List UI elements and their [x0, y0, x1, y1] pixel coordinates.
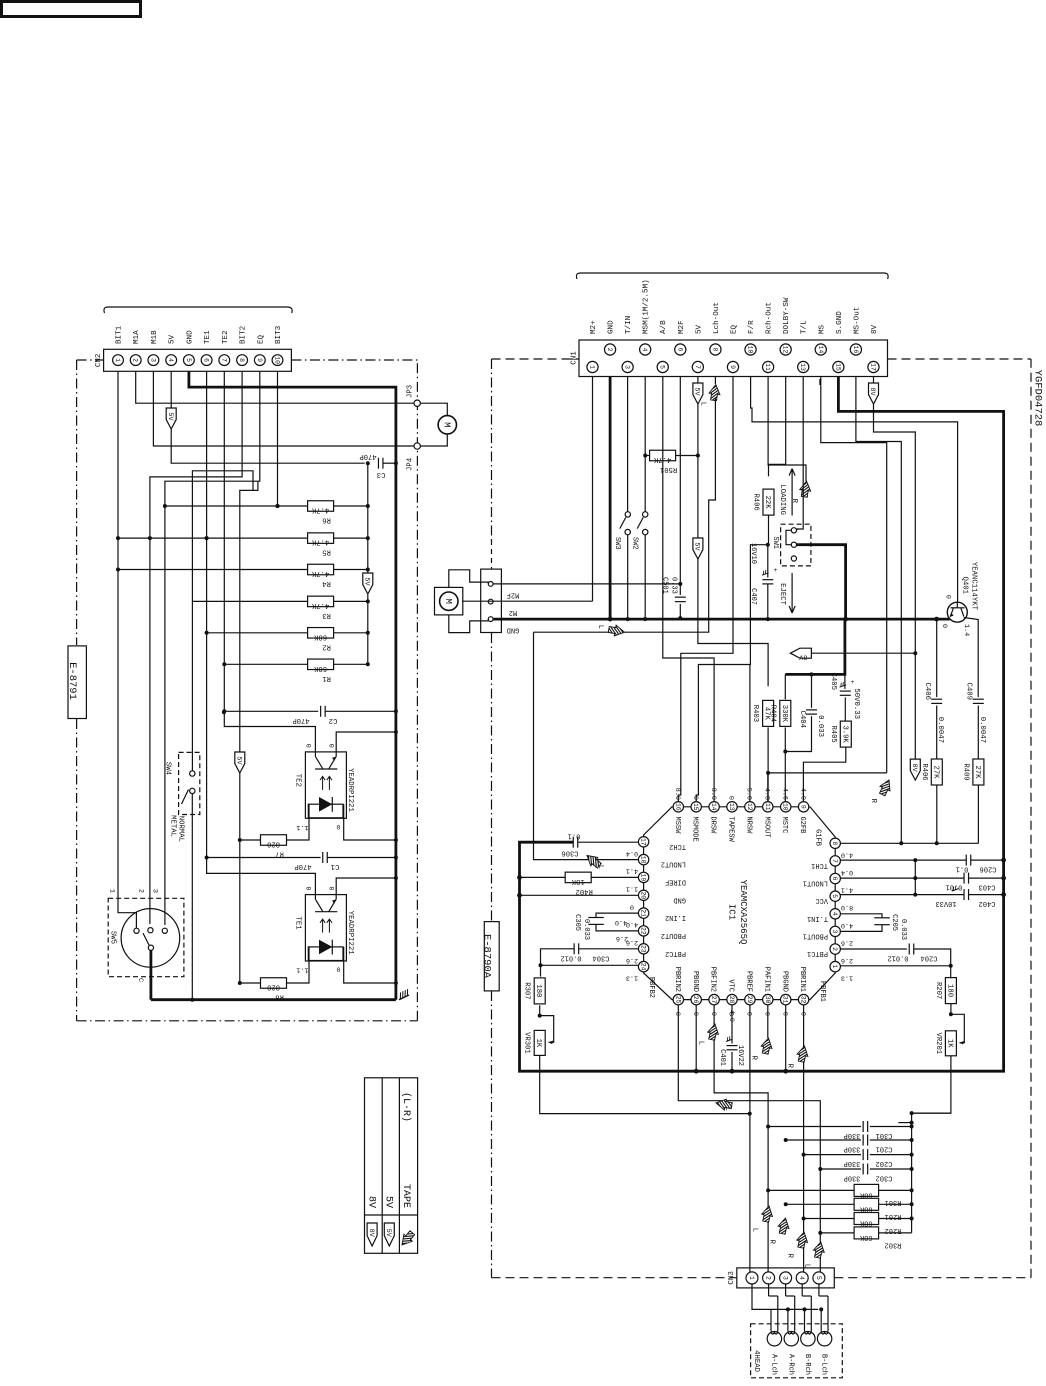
svg-text:5V: 5V	[693, 542, 701, 551]
capacitor C304 0.012 on pin23	[579, 948, 639, 950]
head A-Lch signal wire	[777, 1296, 779, 1332]
svg-text:2.6: 2.6	[841, 956, 853, 964]
svg-text:8.0: 8.0	[841, 903, 853, 911]
capacitor C402 10V33 (electrolytic) on pin5 VCC	[840, 894, 964, 896]
svg-text:MS: MS	[818, 324, 826, 334]
svg-text:TAPESW: TAPESW	[727, 817, 735, 843]
svg-text:R406: R406	[920, 763, 928, 780]
svg-text:20: 20	[640, 891, 647, 899]
svg-text:68K: 68K	[859, 1233, 872, 1241]
svg-text:CN1: CN1	[571, 351, 579, 365]
svg-text:L: L	[697, 1041, 705, 1045]
svg-text:4.0: 4.0	[841, 921, 853, 929]
svg-text:GND: GND	[186, 330, 194, 344]
wire pin1 PBFB1	[840, 965, 950, 967]
svg-text:R6: R6	[322, 515, 331, 523]
svg-text:YEADRPI221: YEADRPI221	[346, 768, 354, 812]
svg-text:PBTC1: PBTC1	[807, 949, 828, 957]
svg-text:NRSW: NRSW	[744, 817, 752, 835]
svg-text:PBRIN1: PBRIN1	[798, 967, 806, 992]
IC1 pin 8 G1FB	[830, 838, 840, 848]
head B-Rch signal wire	[810, 1296, 812, 1332]
svg-text:8: 8	[831, 841, 838, 845]
IC1 pin 31 PBGND	[781, 994, 791, 1004]
wire pin27 PBFIN2 to CN3-2	[714, 1005, 768, 1272]
svg-text:0.33: 0.33	[670, 577, 678, 594]
svg-text:R406: R406	[752, 493, 760, 510]
svg-text:0.4: 0.4	[841, 868, 853, 876]
svg-text:0: 0	[691, 796, 699, 800]
TE2 bottom wires / resistor R7 820	[286, 804, 309, 840]
svg-text:0: 0	[691, 1012, 699, 1016]
svg-text:SW4: SW4	[163, 762, 171, 776]
svg-text:TE2: TE2	[222, 330, 230, 344]
resistor R405 3.9K	[844, 697, 846, 721]
svg-text:T/IN: T/IN	[625, 316, 633, 334]
capacitor C407 16V10 (electrolytic)	[767, 545, 769, 578]
wire pin31 PBGND to shield	[785, 1005, 787, 1071]
svg-text:Q401: Q401	[960, 576, 968, 594]
svg-text:24: 24	[640, 963, 647, 971]
resistor R406 27K	[931, 759, 942, 785]
capacitor C403 0.01 on pin6	[840, 877, 964, 879]
CN2 pin 5 GND	[184, 355, 195, 366]
IC1 pin 7 TCH1	[830, 856, 840, 866]
svg-text:0: 0	[303, 744, 311, 748]
svg-text:7: 7	[831, 859, 838, 863]
IC1 pin 25 PBRIN2	[673, 994, 683, 1004]
svg-text:C201: C201	[876, 1145, 893, 1153]
svg-text:TCH1: TCH1	[811, 861, 828, 869]
svg-text:8: 8	[238, 358, 245, 362]
IC1 pin 22 PBOUT2	[638, 926, 648, 936]
svg-text:DRSW: DRSW	[709, 817, 717, 835]
capacitor C305 0.033 between pin21/pin22	[596, 913, 638, 917]
svg-text:R405: R405	[829, 725, 837, 742]
svg-text:2: 2	[765, 1276, 772, 1280]
svg-text:L: L	[751, 1228, 759, 1232]
svg-text:5V: 5V	[235, 756, 243, 765]
CN1 pin 16 MS-Out	[850, 344, 861, 355]
IC1 pin 21 I.IN2	[638, 908, 648, 918]
wire SW4 branch	[192, 471, 253, 602]
wire CN1-10 F/R to Q401 base	[751, 377, 958, 602]
wire CN2-7 TE2 line	[224, 372, 315, 752]
capacitor C405 50V0.33 (electrolytic)	[844, 674, 846, 689]
VR201 wire down to PBREF line	[912, 1056, 951, 1113]
svg-text:T/L: T/L	[801, 320, 809, 334]
svg-text:C: C	[136, 978, 144, 982]
svg-text:PBFB2: PBFB2	[647, 977, 655, 998]
wire pin28 VTC / capacitor C401 16V22	[731, 1005, 733, 1044]
wire IC pin12 NRSW	[749, 665, 751, 802]
svg-text:4.7K: 4.7K	[311, 538, 329, 546]
legend tape arrow	[388, 1221, 423, 1254]
svg-text:E-8791: E-8791	[66, 662, 78, 700]
IC1 pin 9 G2FB	[798, 802, 808, 812]
resistor R202 68K	[804, 1218, 855, 1220]
CN1 pin 10 F/R	[745, 344, 756, 355]
svg-text:5V: 5V	[169, 334, 177, 344]
R tape flag on MS-Out junction	[870, 774, 906, 802]
svg-text:PAFIN1: PAFIN1	[762, 967, 770, 992]
svg-text:BIT3: BIT3	[275, 325, 283, 344]
svg-text:5: 5	[659, 365, 666, 369]
svg-text:8.0: 8.0	[673, 788, 681, 800]
IC1 body frame	[644, 807, 836, 1000]
legend 8V flag	[367, 1223, 377, 1246]
resistor R404 330K	[784, 674, 786, 699]
svg-text:0: 0	[336, 822, 340, 830]
wire CN1-1 M2+	[592, 377, 594, 602]
head B-Rch	[801, 1332, 815, 1346]
svg-text:A-Rch: A-Rch	[786, 1354, 794, 1375]
svg-text:5: 5	[831, 894, 838, 898]
svg-text:C202: C202	[876, 1159, 893, 1167]
capacitor C1 470P	[207, 857, 321, 859]
CN1 pin 3 T/IN	[622, 361, 633, 372]
svg-text:10V33: 10V33	[935, 899, 956, 907]
svg-text:4.0: 4.0	[615, 918, 627, 926]
svg-text:0.033: 0.033	[816, 715, 824, 737]
svg-text:CN3: CN3	[728, 1271, 736, 1285]
svg-text:13: 13	[799, 363, 806, 371]
svg-text:27K: 27K	[973, 766, 981, 780]
svg-text:R1: R1	[322, 674, 331, 682]
svg-text:YGFD04728: YGFD04728	[1032, 370, 1044, 427]
svg-text:R3: R3	[322, 611, 331, 619]
svg-text:4HEAD: 4HEAD	[752, 1350, 760, 1373]
resistor R403 47K	[763, 700, 774, 726]
svg-text:M1B: M1B	[151, 330, 159, 344]
potentiometer VR201 1K	[945, 1031, 956, 1056]
L tape flag below CN1-8	[714, 377, 716, 385]
svg-text:PBREF: PBREF	[745, 971, 753, 992]
svg-text:470P: 470P	[294, 862, 311, 870]
capacitor C302 330P	[820, 1168, 861, 1170]
CN3 pin 2	[763, 1272, 775, 1284]
svg-text:PBRIN2: PBRIN2	[673, 967, 681, 992]
svg-text:1: 1	[748, 1276, 755, 1280]
svg-text:C404: C404	[798, 710, 806, 728]
SW5 common C wire (bold)	[149, 950, 152, 999]
svg-text:Rch-Out: Rch-Out	[766, 302, 774, 334]
svg-text:27: 27	[710, 996, 717, 1004]
IC1 pin 27 PBFIN2	[709, 994, 719, 1004]
svg-text:VR201: VR201	[934, 1033, 942, 1055]
svg-text:JP3: JP3	[407, 385, 415, 398]
IC1 pin 15 MSMODE	[691, 802, 701, 812]
R tape flag on CN1-11 Rch-Out	[768, 377, 806, 482]
connector CN3	[737, 1268, 835, 1288]
wire CN1-2 GND (bold)	[609, 377, 612, 620]
svg-text:1: 1	[831, 965, 838, 969]
svg-text:C304: C304	[593, 954, 610, 962]
svg-text:1: 1	[114, 358, 121, 362]
resistor R5 4.7K	[118, 537, 308, 539]
svg-text:68K: 68K	[859, 1219, 872, 1227]
svg-text:1K: 1K	[534, 1039, 542, 1048]
svg-text:1: 1	[589, 365, 596, 369]
IC1 pin 26 PBGND	[691, 994, 701, 1004]
svg-text:PBOUT1: PBOUT1	[803, 931, 828, 939]
svg-text:17: 17	[869, 363, 876, 371]
wire CN1-17 8V	[874, 404, 916, 759]
svg-text:C205: C205	[890, 914, 898, 931]
svg-text:PBTC2: PBTC2	[665, 949, 686, 957]
svg-text:12: 12	[782, 346, 789, 354]
svg-text:C302: C302	[876, 1174, 893, 1182]
svg-text:6: 6	[676, 348, 683, 352]
svg-text:SW5: SW5	[108, 931, 116, 944]
svg-text:2.6: 2.6	[616, 934, 628, 942]
svg-text:4: 4	[798, 1276, 805, 1280]
svg-text:1.1: 1.1	[296, 823, 308, 831]
wire branch from C407 junction to IC pin15 MSMODE	[696, 545, 768, 802]
svg-text:BIT2: BIT2	[240, 325, 248, 344]
capacitor C202 330P	[804, 1154, 861, 1156]
IC1 pin 12 NRSW	[745, 802, 755, 812]
svg-text:4.7K: 4.7K	[311, 569, 329, 577]
svg-text:GND: GND	[673, 895, 686, 903]
svg-text:27K: 27K	[931, 766, 939, 780]
L tape flag on pin18 line	[578, 842, 611, 877]
svg-text:30: 30	[764, 996, 771, 1004]
svg-text:C306: C306	[562, 849, 579, 857]
svg-text:PBGND: PBGND	[691, 971, 699, 992]
svg-text:4.6: 4.6	[780, 788, 788, 800]
svg-text:VTC: VTC	[727, 979, 735, 992]
IC1 pin 13 TAPESW	[727, 802, 737, 812]
E-8791 block dashed boundary	[76, 360, 78, 645]
5V flag lower on CN1-7	[693, 538, 703, 559]
svg-text:R5: R5	[322, 548, 331, 556]
svg-text:18: 18	[640, 856, 647, 864]
wire pin25 PBRIN2 to CN3-5	[678, 1005, 820, 1272]
head A-Lch	[767, 1332, 781, 1346]
IC1 pin 32 PBRIN1	[798, 994, 808, 1004]
svg-text:2.6: 2.6	[841, 938, 853, 946]
svg-text:5V: 5V	[384, 1229, 392, 1238]
R405 to IC pin9	[803, 747, 845, 801]
CN2 pin 4 5V	[166, 355, 177, 366]
svg-text:IC1: IC1	[727, 904, 737, 920]
svg-text:MSTC: MSTC	[780, 817, 788, 834]
svg-text:11: 11	[764, 363, 771, 371]
wire pin32 PBRIN1 to CN3-4	[803, 1005, 805, 1272]
svg-text:4.7K: 4.7K	[311, 601, 329, 609]
svg-text:5V: 5V	[166, 412, 174, 421]
svg-text:8V: 8V	[798, 653, 807, 661]
svg-text:13: 13	[728, 803, 735, 811]
wire CN1-16 MS-Out to G1FB line	[856, 377, 901, 844]
svg-text:GND: GND	[507, 626, 520, 634]
R tape flag on pin32	[787, 1043, 822, 1065]
switch SW3	[627, 377, 629, 512]
svg-text:9: 9	[800, 805, 807, 809]
svg-text:0: 0	[303, 887, 311, 891]
svg-text:M2+: M2+	[590, 320, 598, 334]
svg-text:0.012: 0.012	[560, 954, 581, 962]
wire CN1-9 EQ to IC pin16 MSSW	[678, 377, 733, 802]
svg-text:8V: 8V	[868, 387, 876, 396]
svg-text:6: 6	[831, 877, 838, 881]
svg-text:C403: C403	[979, 883, 996, 891]
svg-text:R207: R207	[934, 982, 942, 999]
svg-text:L: L	[699, 402, 707, 406]
svg-text:0.0047: 0.0047	[936, 717, 944, 743]
junction bus for head network	[912, 1112, 951, 1114]
svg-text:EJECT: EJECT	[778, 583, 786, 606]
CN2 pin 2 M1A	[130, 355, 141, 366]
chassis ground symbol	[396, 989, 410, 1000]
resistor R301 68K	[768, 1189, 854, 1191]
svg-text:19: 19	[640, 874, 647, 882]
svg-text:YEANC114YKT: YEANC114YKT	[969, 562, 977, 611]
wire M2 center to CN1-1	[462, 600, 593, 602]
svg-text:26: 26	[692, 996, 699, 1004]
svg-text:R4: R4	[322, 579, 331, 587]
svg-text:MSSW: MSSW	[673, 817, 681, 835]
svg-text:31: 31	[782, 996, 789, 1004]
svg-text:2: 2	[132, 358, 139, 362]
svg-text:R8: R8	[275, 992, 284, 1000]
CN1 pin 6 M2F	[675, 344, 686, 355]
svg-text:DOLBY-SW: DOLBY-SW	[783, 297, 791, 334]
svg-text:16: 16	[674, 803, 681, 811]
svg-text:0.033: 0.033	[582, 919, 590, 940]
svg-text:5V: 5V	[693, 387, 701, 396]
capacitor C409 0.0047	[977, 694, 979, 697]
CN1 pin 8 Lch-Out	[710, 344, 721, 355]
svg-text:T.IN1: T.IN1	[807, 914, 828, 922]
svg-text:C3: C3	[377, 470, 386, 478]
svg-text:A/B: A/B	[660, 320, 668, 334]
capacitor C501 0.33	[679, 584, 681, 595]
head A-Rch	[784, 1332, 798, 1346]
svg-text:5: 5	[815, 1276, 822, 1280]
svg-text:0: 0	[944, 595, 952, 599]
svg-text:G2FB: G2FB	[798, 817, 806, 834]
IC1 pin 19 DIREF	[638, 872, 648, 882]
svg-text:330P: 330P	[844, 1145, 861, 1153]
IC1 pin 5 VCC	[830, 891, 840, 901]
svg-text:7: 7	[220, 358, 227, 362]
connector CN1	[576, 273, 888, 279]
svg-text:180: 180	[534, 984, 542, 997]
wire CN2-9 EQ to SW5 pin3	[165, 372, 260, 926]
capacitor C205 0.033 between pin4/pin3	[840, 914, 882, 918]
svg-text:1.3: 1.3	[626, 974, 638, 982]
svg-text:0: 0	[326, 744, 334, 748]
svg-text:B-Rch: B-Rch	[803, 1354, 811, 1375]
svg-text:3: 3	[831, 929, 838, 933]
svg-text:32: 32	[800, 996, 807, 1004]
MSOUT line (IC pin11 to MS wire)	[768, 772, 887, 774]
svg-text:R404: R404	[768, 705, 776, 722]
svg-text:18K: 18K	[571, 877, 585, 885]
svg-text:0.0047: 0.0047	[978, 717, 986, 743]
resistor R2 68K	[207, 632, 308, 634]
capacitor C2 470P	[224, 710, 318, 712]
IC1 pin 23 PBTC2	[638, 944, 648, 954]
IC1 pin 4 T.IN1	[830, 909, 840, 919]
wire stub to R7/R8 column	[240, 481, 258, 983]
switch SW5 (rotary)	[108, 898, 184, 976]
svg-text:180: 180	[945, 984, 953, 997]
title box (blank)	[2, 2, 141, 17]
svg-text:SW3: SW3	[613, 537, 621, 550]
IC1 pin 14 DRSW	[709, 802, 719, 812]
svg-text:3: 3	[624, 365, 631, 369]
svg-text:M: M	[443, 598, 453, 603]
svg-text:SW2: SW2	[631, 537, 639, 550]
E-8790A label	[484, 922, 499, 991]
svg-text:8V: 8V	[910, 764, 918, 773]
svg-text:B-Lch: B-Lch	[820, 1354, 828, 1375]
CN2 pin 10 BIT3	[272, 355, 283, 366]
svg-text:22K: 22K	[763, 496, 771, 510]
svg-text:F/R: F/R	[748, 320, 756, 334]
svg-text:5.0: 5.0	[745, 788, 753, 800]
svg-text:LNOUT2: LNOUT2	[661, 860, 686, 868]
5V flag below CN1-7	[693, 383, 703, 404]
svg-text:4.1: 4.1	[626, 867, 638, 875]
svg-text:VR301: VR301	[523, 1032, 531, 1054]
svg-text:C204: C204	[921, 954, 938, 962]
motor M2 bracket wires	[449, 570, 489, 588]
CN2 pin 3 M1B	[148, 355, 159, 366]
svg-text:29: 29	[746, 996, 753, 1004]
svg-text:9: 9	[256, 358, 263, 362]
wire pin24 PBFB2	[541, 964, 639, 966]
wire CN2-4 5V to C3 row	[171, 372, 365, 464]
svg-text:R2: R2	[322, 642, 331, 650]
8V flag (down) on 8V line	[910, 759, 920, 780]
wire CN2-10 BIT3 to R6	[277, 372, 279, 507]
legend 5V flag	[384, 1223, 394, 1246]
svg-text:R7: R7	[275, 849, 284, 857]
svg-text:S.GND: S.GND	[836, 311, 844, 334]
svg-text:5V: 5V	[695, 324, 703, 334]
IC1 pin 6 LNOUT1	[830, 873, 840, 883]
IC1 pin 20 GND	[638, 890, 648, 900]
L tape flag on CN3-2 line	[752, 1203, 787, 1225]
svg-text:0.012: 0.012	[887, 954, 908, 962]
svg-text:4: 4	[641, 348, 648, 352]
svg-text:EQ: EQ	[257, 334, 265, 344]
5V flag on bus	[363, 573, 373, 594]
legend table	[365, 1078, 418, 1254]
svg-text:68K: 68K	[313, 632, 327, 640]
svg-text:MSOUT: MSOUT	[762, 817, 770, 838]
IC1 pin 16 MSSW	[673, 802, 683, 812]
svg-text:4.0: 4.0	[841, 850, 853, 858]
wire CN1-5 A/B to IC pin14 DRSW	[663, 377, 714, 802]
wire CN2-8 BIT2 to SW5 pin2	[150, 372, 242, 925]
bold ground bus (E-8790A)	[493, 618, 950, 621]
svg-text:8.0: 8.0	[709, 788, 717, 800]
svg-text:10: 10	[274, 356, 281, 364]
svg-text:16: 16	[852, 346, 859, 354]
5V line continues to R403 feed	[698, 559, 768, 686]
svg-text:23: 23	[640, 945, 647, 953]
svg-text:50V0.33: 50V0.33	[852, 688, 860, 719]
svg-text:28: 28	[728, 996, 735, 1004]
head common wire	[752, 1284, 818, 1310]
8V flag (left) on branch	[811, 652, 915, 654]
svg-text:14: 14	[710, 803, 717, 811]
